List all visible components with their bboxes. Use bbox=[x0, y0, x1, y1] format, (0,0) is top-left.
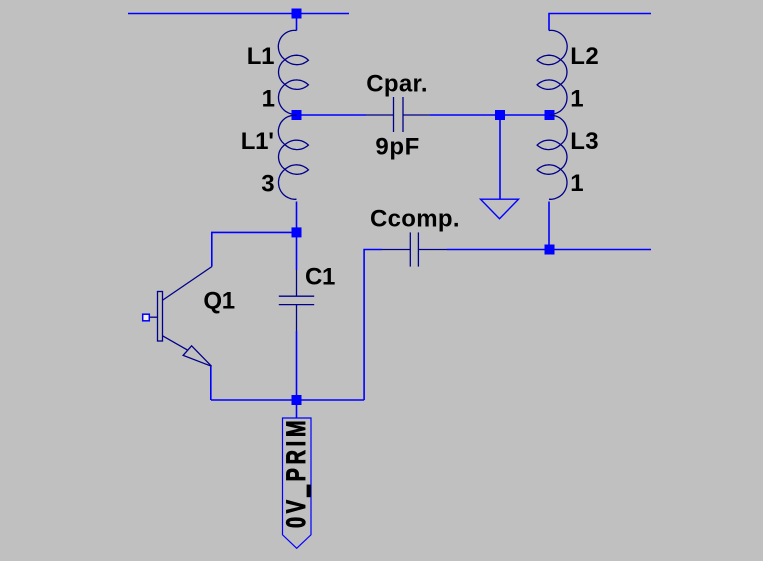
ground symbol bbox=[481, 199, 519, 219]
wire emitter down to bottom net bbox=[210, 367, 212, 400]
transistor Q1 bbox=[150, 267, 212, 367]
wire node to Cpar left lead bbox=[297, 114, 367, 116]
svg-text:Ccomp.: Ccomp. bbox=[370, 206, 460, 233]
junction L3 / compensation net bbox=[545, 245, 555, 255]
wire C1 bottom lead to 0V net bbox=[296, 331, 298, 400]
svg-text:3: 3 bbox=[261, 170, 274, 197]
net flag 0V_PRIM outline bbox=[283, 418, 312, 548]
junction top net / L1 pin bbox=[292, 9, 302, 19]
wire stub to net flag bbox=[296, 404, 298, 418]
svg-text:1: 1 bbox=[570, 86, 583, 113]
svg-text:L1': L1' bbox=[241, 128, 274, 155]
wire bottom 0V net bbox=[211, 399, 364, 401]
svg-text:L2: L2 bbox=[570, 43, 599, 70]
wire L1' bottom pin down to collector node bbox=[296, 202, 298, 233]
wire Cpar right lead to L2/L3 node bbox=[430, 114, 550, 116]
pin contact square Q1 base bbox=[143, 314, 150, 321]
junction node between L2 and L3 bbox=[545, 110, 555, 120]
wire collector net from node to Q1 bbox=[212, 232, 297, 266]
junction 0V node bbox=[292, 395, 302, 405]
wire L3 bottom pin down to compensation net bbox=[548, 202, 550, 250]
svg-text:9pF: 9pF bbox=[375, 133, 419, 160]
inductor L1 bbox=[278, 30, 308, 114]
inductor L3 bbox=[537, 115, 567, 199]
inductor L2 bbox=[537, 30, 567, 114]
junction node between L1 and L1' bbox=[292, 110, 302, 120]
inductor L1' bbox=[278, 115, 308, 199]
junction at ground tap bbox=[495, 110, 505, 120]
wire stub into L1 top pin bbox=[296, 17, 298, 31]
svg-text:L1: L1 bbox=[247, 43, 274, 70]
wire top-left supply net bbox=[128, 13, 349, 15]
svg-text:Q1: Q1 bbox=[203, 288, 234, 315]
svg-text:Cpar.: Cpar. bbox=[366, 70, 428, 97]
svg-text:L3: L3 bbox=[570, 128, 599, 155]
capacitor C1 bbox=[279, 270, 314, 331]
svg-text:C1: C1 bbox=[305, 263, 335, 290]
wire compensation net to the right bbox=[447, 249, 651, 251]
svg-text:1: 1 bbox=[262, 86, 275, 113]
capacitor Ccomp bbox=[382, 232, 447, 266]
svg-text:1: 1 bbox=[570, 170, 583, 197]
svg-text:0V_PRIM: 0V_PRIM bbox=[281, 417, 310, 528]
wire C1 top lead bbox=[296, 236, 298, 270]
wire top-right supply net bbox=[549, 14, 651, 31]
capacitor Cpar bbox=[366, 97, 430, 132]
wire ground drop bbox=[499, 119, 501, 199]
junction collector node bbox=[292, 227, 302, 237]
wire Ccomp left lead to bottom net bbox=[364, 250, 382, 401]
